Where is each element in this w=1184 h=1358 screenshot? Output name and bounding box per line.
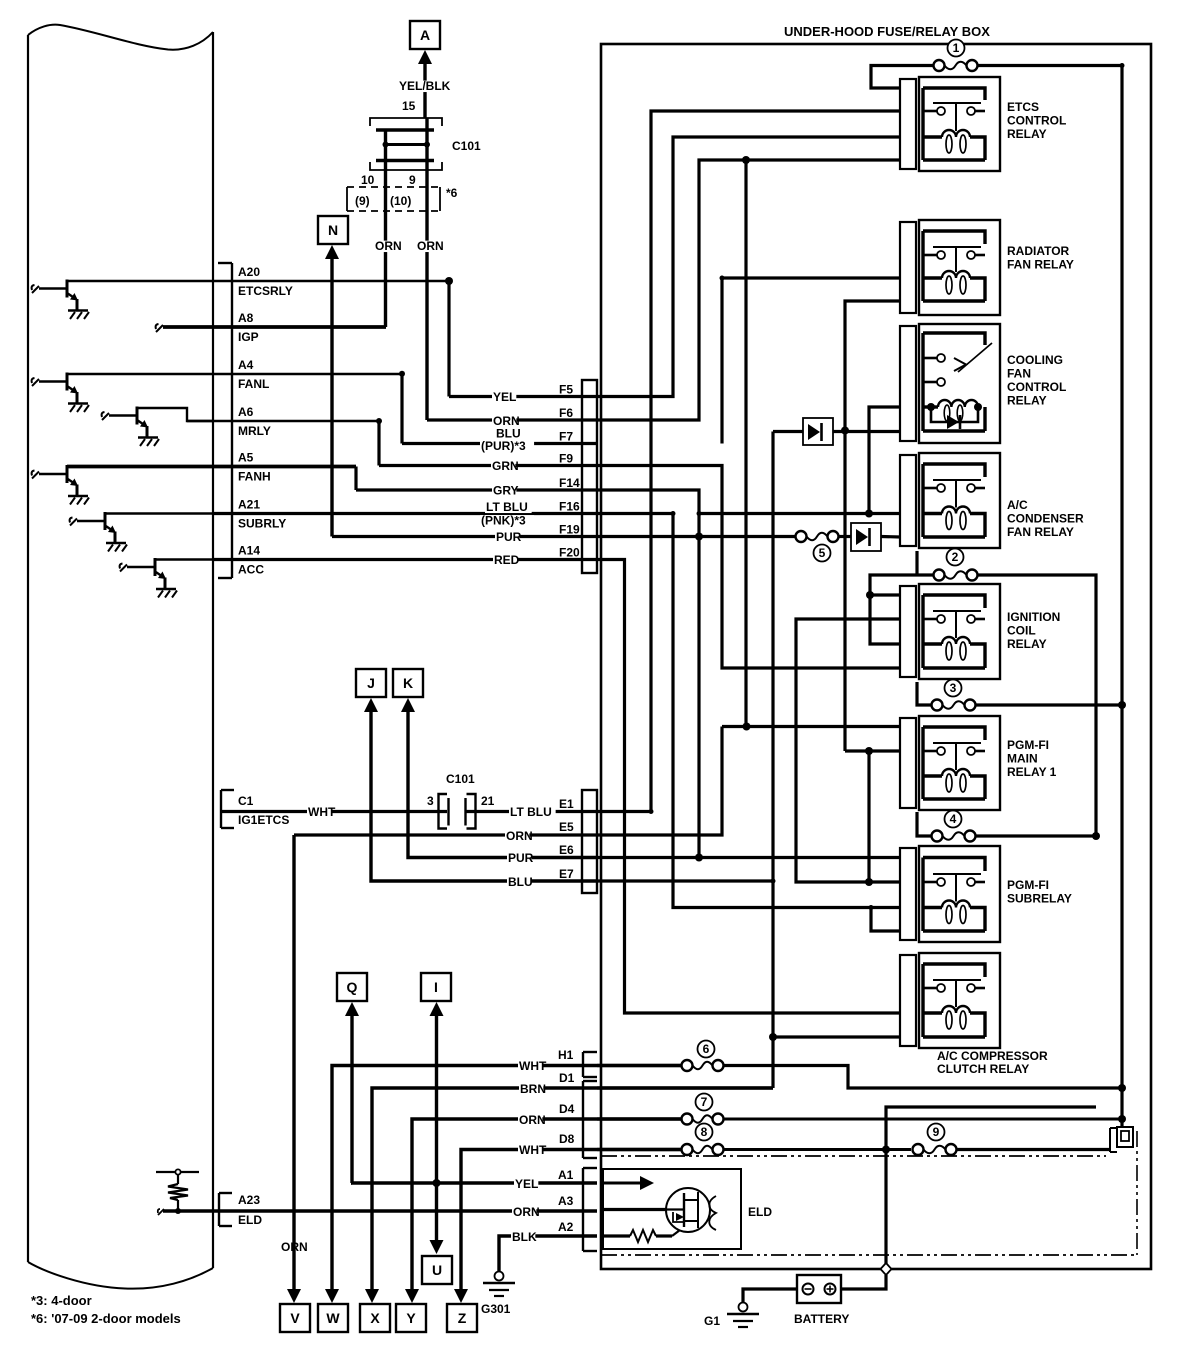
wire diode2 to A/C condenser coil-	[881, 535, 900, 539]
svg-text:H1: H1	[558, 1048, 574, 1062]
fuse 3	[932, 680, 976, 711]
svg-text:ETCS: ETCS	[1007, 100, 1039, 114]
node: nub at radiator coil corner	[720, 276, 725, 281]
wire FANH jog to GRY	[354, 467, 357, 491]
wire D1 row inside box	[597, 1086, 773, 1089]
node: D4 joins bus	[1118, 1115, 1126, 1123]
transistor (ELD sensing FET in circle)	[666, 1188, 710, 1236]
connector C101 (upper, pins 15/9/10)	[370, 118, 442, 170]
svg-text:A20: A20	[238, 265, 260, 279]
svg-text:2: 2	[952, 550, 959, 564]
svg-text:F14: F14	[559, 476, 580, 490]
svg-text:A/C: A/C	[1007, 498, 1028, 512]
label: A/C COMPRESSOR CLUTCH RELAY	[0, 0, 1, 1]
node: main relay contact-out junction	[865, 747, 873, 755]
svg-text:YEL: YEL	[515, 1177, 538, 1191]
svg-text:BLK: BLK	[512, 1230, 537, 1244]
svg-text:Y: Y	[406, 1310, 416, 1326]
wire N to PUR/F19	[330, 258, 333, 537]
svg-text:3: 3	[950, 681, 957, 695]
svg-text:COOLING: COOLING	[1007, 353, 1063, 367]
svg-text:FANH: FANH	[238, 470, 271, 484]
off-page arrow X	[360, 1289, 390, 1332]
svg-text:A8: A8	[238, 311, 254, 325]
svg-text:8: 8	[701, 1125, 708, 1139]
svg-text:PGM-FI: PGM-FI	[1007, 878, 1049, 892]
svg-text:ORN: ORN	[513, 1205, 540, 1219]
node: nub at F16 corner	[671, 511, 676, 516]
wire battery feed bus x886	[886, 1107, 1096, 1269]
node: junction A1/YEL with I-U wire	[433, 1179, 441, 1187]
value label ORN (right)	[416, 241, 440, 252]
wire MRLY corner	[376, 418, 382, 424]
ECM/PCM block outline (torn-edge body)	[28, 25, 213, 1289]
svg-text:A4: A4	[238, 358, 254, 372]
relay: COOLING FAN CONTROL RELAY - box	[919, 324, 1000, 443]
transistor Q2 (FANL driver)	[32, 373, 89, 413]
wire ORN E5 down to V arrow	[292, 835, 295, 1296]
value label GRN	[491, 461, 515, 472]
wire RED into F20	[213, 558, 597, 561]
off-page arrow Z	[447, 1289, 477, 1332]
wire fuse4 left stub to main relay bracket	[917, 812, 932, 836]
wire ignition relay contact-out to subrelay via x796	[796, 619, 900, 882]
svg-text:5: 5	[819, 546, 826, 560]
svg-text:FAN: FAN	[1007, 367, 1031, 381]
value label ORN (left)	[374, 241, 398, 252]
wire LT BLU into F16	[213, 512, 597, 515]
transistor Q5 (SUBRLY driver)	[70, 512, 127, 552]
wire C101 pin 10 to IGP (ORN)	[384, 129, 387, 327]
wire cooling fan relay coil+ feed	[869, 407, 900, 514]
svg-text:YEL: YEL	[493, 390, 516, 404]
svg-text:SUBRELAY: SUBRELAY	[1007, 892, 1072, 906]
node: ignition p1 junction	[866, 591, 874, 599]
svg-text:3: 3	[427, 794, 434, 808]
wire fuse2 right to bus x1096	[977, 575, 1096, 836]
resistor (ELD internal)	[603, 1230, 672, 1242]
svg-text:ELD: ELD	[748, 1205, 772, 1219]
svg-text:F5: F5	[559, 383, 573, 397]
svg-text:RELAY 1: RELAY 1	[1007, 765, 1057, 779]
wire fuse2 left to ignition relay feed	[870, 575, 934, 644]
wire fuse1 to right bus	[977, 64, 1122, 67]
svg-text:(PUR)*3: (PUR)*3	[481, 439, 526, 453]
transistor Q1 (ETCSRLY driver)	[32, 280, 89, 320]
wire ECM row A20/ETCSRLY	[67, 280, 449, 282]
value label YEL (A1)	[514, 1179, 538, 1190]
wire battery negative to G1	[743, 1289, 797, 1303]
svg-text:WHT: WHT	[519, 1059, 547, 1073]
wire A/C compressor clutch relay coil- row	[773, 1035, 900, 1038]
svg-text:BATTERY: BATTERY	[794, 1312, 849, 1326]
relay: RADIATOR FAN RELAY - connector bracket	[900, 222, 916, 313]
svg-text:I: I	[434, 979, 438, 995]
wire ECM row A14/ACC	[155, 558, 582, 560]
connector bracket: fuse box F connector	[582, 380, 597, 573]
wire MRLY driver output jog	[137, 408, 213, 421]
wire ECM row A6/MRLY	[187, 420, 379, 422]
relay: ETCS CONTROL RELAY - box	[919, 77, 1000, 171]
svg-text:X: X	[370, 1310, 380, 1326]
off-page arrow J	[356, 669, 386, 712]
wire GRN/F9 down to ignition coil relay coil-	[597, 466, 900, 669]
value label PUR (E6)	[507, 853, 531, 864]
transistor Q4 (FANH driver)	[32, 465, 89, 505]
svg-text:D1: D1	[559, 1071, 575, 1085]
resistor (ELD pull-up inside ECM)	[156, 1169, 199, 1214]
svg-text:YEL/BLK: YEL/BLK	[399, 79, 451, 93]
connector bracket: ELD A connector	[583, 1168, 597, 1251]
svg-text:RELAY: RELAY	[1007, 394, 1047, 408]
wire subrelay coil- jog	[871, 908, 900, 932]
svg-text:(10): (10)	[390, 194, 411, 208]
svg-text:IGP: IGP	[238, 330, 259, 344]
svg-text:C1: C1	[238, 794, 254, 808]
relay: COOLING FAN CONTROL RELAY - internals	[923, 333, 992, 431]
label: A/C CONDENSER FAN RELAY	[1007, 498, 1084, 539]
svg-text:E1: E1	[559, 797, 574, 811]
wire ECM row A8/IGP	[163, 325, 386, 329]
wire fuse4 right to bus x1096	[975, 834, 1096, 837]
svg-text:WHT: WHT	[308, 805, 336, 819]
node: fuse3 joins bus	[1118, 701, 1126, 709]
fuse 1	[934, 40, 978, 72]
svg-text:A2: A2	[558, 1220, 574, 1234]
wire right bus x1122 from fuse1 down to terminal	[1120, 66, 1123, 1128]
svg-text:GRY: GRY	[493, 484, 519, 498]
wire fuse1 to ETCS relay switch-in	[871, 66, 934, 89]
node: junction A/C compressor coil- taps x773	[769, 1033, 777, 1041]
wire ECM row A21/SUBRLY	[105, 512, 582, 514]
svg-text:FAN RELAY: FAN RELAY	[1007, 258, 1074, 272]
node: nub at F14 jog	[697, 511, 702, 516]
svg-text:PUR: PUR	[508, 851, 534, 865]
value label BLU (E7)	[507, 877, 531, 888]
svg-text:RELAY: RELAY	[1007, 637, 1047, 651]
relay: A/C CONDENSER FAN RELAY - box	[919, 453, 1000, 548]
wire H1 row inside box to fuse6	[597, 1064, 681, 1067]
wire D4 from fuse7 to bus	[724, 1118, 1122, 1121]
off-page arrow N	[318, 216, 348, 259]
relay: COOLING FAN CONTROL RELAY - connector bracket	[900, 326, 916, 441]
svg-text:FANL: FANL	[238, 377, 269, 391]
relay: IGNITION COIL RELAY - internal switch and coil	[923, 595, 985, 668]
wire Q down to YEL/A1 row	[350, 1015, 353, 1183]
off-page arrow W	[318, 1289, 348, 1332]
wire BRN/D1 to X-arrow column	[372, 1088, 773, 1296]
svg-text:6: 6	[703, 1042, 710, 1056]
node: subrelay contact-out junction	[865, 878, 873, 886]
relay: PGM-FI MAIN RELAY 1 - internal switch and coil	[923, 727, 985, 799]
wire BLK/A2 to ground G301	[499, 1236, 597, 1271]
wire fuse3 right to bus x1122	[975, 703, 1122, 706]
wire D4 row inside box to fuse7	[597, 1117, 681, 1120]
svg-text:UNDER-HOOD FUSE/RELAY BOX: UNDER-HOOD FUSE/RELAY BOX	[784, 24, 990, 39]
node: ETCSRLY corner junction	[445, 277, 453, 285]
svg-text:F20: F20	[559, 546, 580, 560]
svg-text:1: 1	[953, 41, 960, 55]
off-page arrow U	[422, 1240, 452, 1284]
svg-text:A23: A23	[238, 1193, 260, 1207]
off-page arrow Y	[396, 1289, 426, 1332]
wire ETCS contact-out to E1 (LT BLU net)	[597, 111, 900, 812]
wire diode1 row to cooling relay coil-	[773, 430, 803, 433]
value label ORN	[492, 416, 516, 427]
wire ETCS coil+ from YEL/F5	[597, 137, 900, 397]
wire A3/ORN into ELD sensor	[603, 1208, 666, 1211]
wire C1/IG1ETCS WHT to C101 pin 3	[221, 810, 447, 813]
off-page arrow V	[280, 1289, 310, 1332]
wire ORN E5 to V-drop	[294, 833, 597, 836]
svg-text:ORN: ORN	[506, 829, 533, 843]
value label WHT	[307, 807, 331, 818]
connector bracket: ECM pin A23	[219, 1193, 232, 1226]
svg-text:(PNK)*3: (PNK)*3	[481, 514, 526, 528]
svg-text:4: 4	[950, 812, 957, 826]
label: PGM-FI SUBRELAY	[1007, 878, 1072, 906]
svg-text:A: A	[420, 27, 430, 43]
off-page arrow A	[410, 21, 440, 64]
wire D8 row inside box to fuse8	[597, 1148, 681, 1151]
svg-text:ORN: ORN	[375, 239, 402, 253]
fuse 9	[913, 1124, 957, 1156]
wire WHT/H1 from W-arrow column	[332, 1066, 681, 1297]
svg-text:21: 21	[481, 794, 495, 808]
svg-text:MAIN: MAIN	[1007, 752, 1038, 766]
label: ETCS CONTROL RELAY	[1007, 100, 1066, 141]
value label ORN (D4)	[518, 1115, 542, 1126]
svg-text:*3: 4-door: *3: 4-door	[31, 1293, 92, 1308]
node: junction GRY net feeds cooling fan relay coil	[865, 510, 873, 518]
label: PGM-FI MAIN RELAY 1	[1007, 738, 1057, 779]
wire F19/PUR down to E6/PUR	[697, 514, 700, 858]
svg-text:CLUTCH RELAY: CLUTCH RELAY	[937, 1062, 1029, 1076]
relay: A/C COMPRESSOR CLUTCH RELAY - internal switch and coil	[923, 964, 985, 1037]
wire YEL/A1 row	[351, 1181, 597, 1184]
svg-text:*6: '07-09 2-door models: *6: '07-09 2-door models	[31, 1311, 181, 1326]
svg-text:10: 10	[361, 173, 375, 187]
connector bracket: fuse box D connector	[583, 1081, 597, 1158]
wire main relay contact-out row	[845, 749, 900, 752]
value label RED	[493, 555, 517, 566]
node: nub subrelay coil jog	[869, 905, 874, 910]
value label WHT (D8)	[518, 1145, 542, 1156]
svg-text:A5: A5	[238, 451, 254, 465]
svg-text:LT BLU: LT BLU	[486, 500, 528, 514]
wire I down through A1 junction to arrow U	[435, 1015, 438, 1249]
wire fuse6 jog to bus x1122	[724, 1066, 1122, 1089]
svg-text:Q: Q	[347, 979, 358, 995]
node: diode1 output junction	[841, 427, 849, 435]
UNDER-HOOD FUSE/RELAY BOX enclosure	[601, 44, 1151, 1269]
svg-text:C101: C101	[452, 139, 481, 153]
svg-text:BLU: BLU	[508, 875, 533, 889]
wire battery positive to box	[841, 1275, 886, 1289]
svg-text:E7: E7	[559, 867, 574, 881]
svg-text:K: K	[403, 675, 413, 691]
wire E7/BLU up to diode1 and down to D1 row	[597, 432, 773, 882]
node: fuse6 wire joins bus	[1118, 1084, 1126, 1092]
svg-text:U: U	[432, 1262, 442, 1278]
node: nub at bus top corner	[1120, 63, 1125, 68]
coil pickup (ELD)	[709, 1196, 716, 1230]
label: COOLING FAN CONTROL RELAY	[1007, 353, 1066, 408]
fuse 6	[682, 1041, 724, 1072]
wire fuse9 to terminal block	[957, 1148, 1110, 1151]
ground G1	[704, 1303, 759, 1329]
wire radiator fan relay coil+ from BLU/F7	[722, 278, 900, 444]
fuse 7	[682, 1094, 724, 1125]
wire J to BLU/E7	[371, 711, 597, 881]
svg-text:F9: F9	[559, 452, 573, 466]
node: junction PUR F19	[695, 533, 703, 541]
wire ORN label on V column	[280, 1242, 304, 1253]
wire PUR into F19	[332, 535, 597, 538]
wire A1/YEL arrow into ELD	[603, 1176, 654, 1190]
wire K to PUR/E6	[408, 711, 597, 858]
wire main contact-out down to subrelay contact-out	[867, 751, 870, 882]
label: RADIATOR FAN RELAY	[1007, 244, 1074, 272]
wire ETCSRLY drop to YEL/F5	[447, 281, 450, 397]
wire radiator fan relay coil- to diode node	[845, 301, 900, 751]
svg-text:MRLY: MRLY	[238, 424, 271, 438]
ELD module box	[603, 1169, 741, 1249]
wire BLU into F7	[402, 442, 597, 445]
wire IGP feed break squiggle	[156, 324, 163, 332]
svg-text:IGNITION: IGNITION	[1007, 610, 1060, 624]
svg-text:RADIATOR: RADIATOR	[1007, 244, 1070, 258]
svg-text:7: 7	[701, 1095, 708, 1109]
dash-dot boundary (ELD module area)	[601, 1131, 1137, 1255]
value label GRY	[492, 485, 516, 496]
wire F20/RED down to A/C compressor coil+	[597, 560, 900, 1014]
node: junction PUR E6	[695, 854, 703, 862]
relay: PGM-FI MAIN RELAY 1 - connector bracket	[900, 718, 916, 808]
wire main relay switch-in row	[722, 725, 900, 728]
value label YEL	[492, 392, 516, 403]
value label ORN (A3)	[512, 1207, 536, 1218]
fuse 5	[796, 531, 839, 562]
svg-text:(9): (9)	[355, 194, 370, 208]
svg-text:E6: E6	[559, 843, 574, 857]
relay: RADIATOR FAN RELAY - box	[919, 220, 1000, 315]
svg-text:LT BLU: LT BLU	[510, 805, 552, 819]
svg-text:A14: A14	[238, 544, 260, 558]
wire x773 lower segment to D1/BRN row	[771, 881, 774, 1088]
wire fuse5 to diode2	[839, 535, 851, 538]
svg-text:A/C COMPRESSOR: A/C COMPRESSOR	[937, 1049, 1048, 1063]
svg-text:E5: E5	[559, 820, 574, 834]
wire A1 left corner up to Q wire	[351, 1181, 352, 1184]
label: A/C COMPRESSOR CLUTCH RELAY	[937, 1049, 1048, 1076]
node: junction at main relay switch-in	[743, 723, 751, 731]
off-page arrow Q	[337, 973, 367, 1016]
wire E6/PUR row to subrelay switch-in	[597, 856, 900, 859]
wire GRY into F14	[356, 488, 597, 491]
relay: PGM-FI SUBRELAY - box	[919, 846, 1000, 942]
off-page arrow K	[393, 669, 423, 712]
svg-text:CONTROL: CONTROL	[1007, 380, 1066, 394]
wire ECM row A5/FANH	[67, 465, 356, 469]
fuse 2	[934, 549, 978, 581]
wire ORN into F6	[427, 418, 597, 421]
value label (PUR)*3	[480, 441, 534, 452]
svg-text:G1: G1	[704, 1314, 720, 1328]
value label PUR	[495, 532, 519, 543]
svg-text:PUR: PUR	[496, 530, 522, 544]
wire YEL/BLK from C101 pin 15 to arrow A	[423, 63, 426, 118]
wire ignition relay switch-in	[870, 593, 900, 596]
value label LT BLU	[509, 807, 556, 818]
wire F19/PUR row with fuse 5	[597, 535, 795, 538]
relay: IGNITION COIL RELAY - connector bracket	[900, 586, 916, 677]
wire YEL into F5	[449, 395, 597, 398]
svg-text:SUBRLY: SUBRLY	[238, 517, 286, 531]
wire F16/LT BLU down to subrelay coil+	[597, 514, 900, 908]
wire ORN A23 to A3 (ELD signal)	[232, 1209, 597, 1212]
svg-text:BRN: BRN	[520, 1082, 546, 1096]
value label YEL/BLK	[398, 81, 452, 92]
transistor Q6 (ACC driver)	[120, 558, 177, 598]
svg-text:RED: RED	[494, 553, 520, 567]
value label ORN (E5)	[505, 831, 529, 842]
wire E5/ORN rises to main relay switch-in	[597, 727, 722, 836]
relay: PGM-FI SUBRELAY - connector bracket	[900, 848, 916, 940]
svg-text:CONTROL: CONTROL	[1007, 114, 1066, 128]
connector bracket: ECM pins A20-A14	[218, 263, 232, 578]
svg-text:WHT: WHT	[519, 1143, 547, 1157]
ground G301	[481, 1272, 515, 1317]
relay: A/C COMPRESSOR CLUTCH RELAY - box	[919, 953, 1000, 1048]
svg-text:15: 15	[402, 99, 416, 113]
node: nub at E1 corner	[649, 809, 654, 814]
svg-text:ETCSRLY: ETCSRLY	[238, 284, 293, 298]
svg-text:9: 9	[933, 1125, 940, 1139]
wire fuse3 left stub to ignition bracket	[917, 682, 932, 705]
value label WHT (H1)	[518, 1061, 542, 1072]
svg-text:V: V	[290, 1310, 300, 1326]
wire F6 net down to PGM-FI main relay switch-in	[744, 160, 747, 727]
wire ETCS coil- from ORN/F6	[597, 160, 900, 420]
svg-text:D8: D8	[559, 1132, 575, 1146]
value label BRN (D1)	[519, 1084, 543, 1095]
connector bracket: fuse box E connector	[582, 790, 597, 893]
wire WHT/D8 to Z-arrow column	[461, 1150, 681, 1297]
fuse 4	[932, 811, 976, 842]
svg-text:ELD: ELD	[238, 1213, 262, 1227]
diode D2 (A/C condenser coil suppressor)	[851, 523, 881, 551]
node: open terminal on box bottom	[881, 1263, 892, 1275]
svg-text:C101: C101	[446, 772, 475, 786]
svg-text:F7: F7	[559, 430, 573, 444]
wire C101 pin 9 down to F6 (ORN)	[425, 118, 428, 420]
connector C101 (lower, pins 3/21)	[439, 794, 476, 829]
value label BLU	[495, 428, 519, 439]
wire A23/ELD row inside ECM with break squiggle	[158, 1209, 232, 1215]
relay: RADIATOR FAN RELAY - internal switch and coil	[923, 231, 985, 301]
svg-text:PGM-FI: PGM-FI	[1007, 738, 1049, 752]
relay: A/C COMPRESSOR CLUTCH RELAY - connector bracket	[900, 955, 916, 1046]
battery BATTERY	[794, 1275, 849, 1326]
node: junction F9/GRN rises to ETCS coil- row	[742, 156, 750, 164]
svg-text:9: 9	[409, 173, 416, 187]
diode D1 (radiator/cooling coil suppressor)	[803, 418, 833, 445]
transistor Q3 (MRLY driver)	[102, 407, 159, 447]
relay: ETCS CONTROL RELAY - connector bracket	[900, 79, 916, 169]
relay: PGM-FI SUBRELAY - internal switch and coil	[923, 858, 985, 932]
svg-text:FAN RELAY: FAN RELAY	[1007, 525, 1074, 539]
